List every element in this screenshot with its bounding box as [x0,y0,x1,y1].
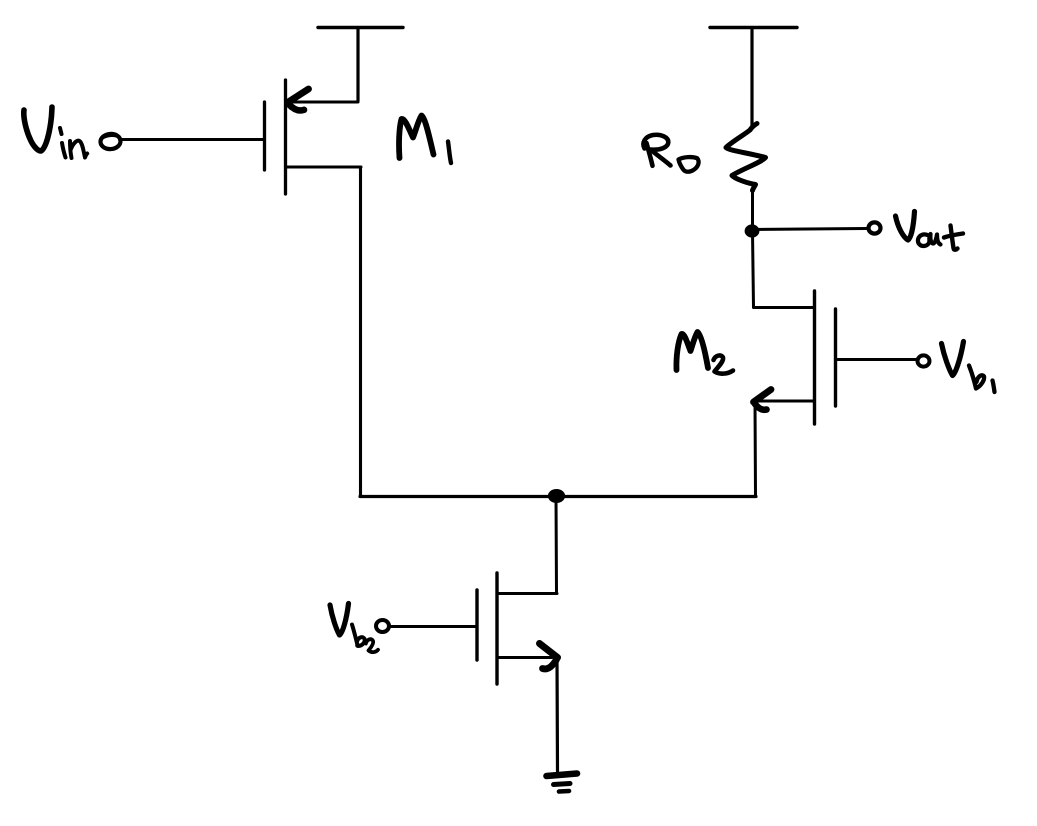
M2 gate plate [834,309,837,406]
wire M2 source down [754,402,758,496]
wire node to Vout terminal [753,229,866,230]
M1 gate wire [120,138,264,141]
transistor M1 (PMOS) [265,80,362,194]
label RD [643,135,698,172]
M3 drain wire [498,592,558,595]
ground [547,774,578,792]
transistor M3 (NMOS current source) [477,573,558,684]
wire node down to M2 drain [753,232,754,307]
M2 source arrow [754,390,772,403]
transistor M2 (PMOS, mirrored) [754,291,836,424]
node wire (common source node) [360,495,756,498]
wire M1 drain down [359,167,362,496]
label Vb2 [330,604,378,653]
M3 gate plate [475,590,478,660]
wire resistor to node [751,190,754,229]
M2 drain wire [754,306,814,309]
Vout terminal circle [869,222,881,233]
node dot (Vout junction) [745,224,760,237]
M2 channel plate [813,291,816,424]
label Vout [896,212,964,250]
M3 source arrow [540,644,558,658]
M1 gate plate [263,102,266,170]
resistor RD [726,124,766,191]
M1 drain wire [286,166,361,169]
M3 source wire [498,656,553,659]
M1 source arrow [288,89,309,103]
junction dot [548,489,565,503]
label M2 [676,332,733,374]
label Vb1 [942,342,995,393]
VDD rail (right) [710,26,797,29]
M3 gate wire [390,625,477,628]
Vin terminal circle [100,133,121,150]
M2 source wire [757,400,814,403]
wire VDD to M1 source [356,28,359,102]
VDD rail (left) [318,26,403,29]
Vb1 terminal circle [918,355,930,366]
M2 gate wire [836,358,917,361]
wire M3 source to ground [555,658,559,771]
M1 channel plate [284,80,287,194]
label Vin [24,107,87,158]
label M1 [399,116,451,164]
wire VDD to resistor [750,28,753,126]
Vb2 terminal circle [376,620,389,632]
M3 channel plate [495,573,498,684]
M1 source wire [287,101,358,104]
wire node down to M3 drain [555,496,559,593]
